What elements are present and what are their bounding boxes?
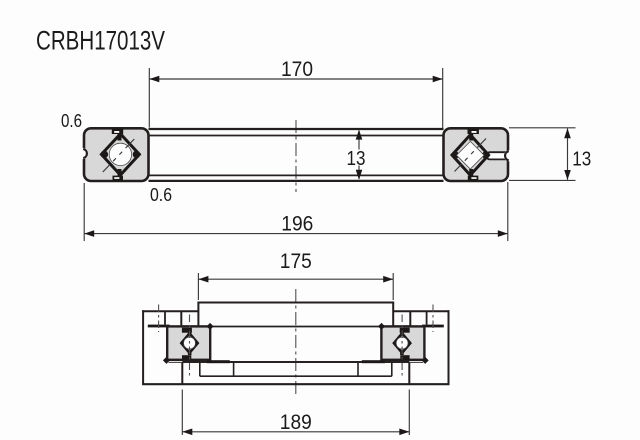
pocket corner dot right-left bbox=[452, 151, 459, 158]
roller circle left bbox=[109, 143, 131, 165]
seal notch right edge bbox=[504, 150, 515, 161]
top plate top edge (half) bbox=[197, 302, 296, 304]
dimension 13 middle bbox=[358, 131, 360, 180]
roller circle small bbox=[184, 337, 196, 349]
svg-text:0.6: 0.6 bbox=[61, 111, 82, 131]
roller axis dash right bbox=[455, 139, 487, 172]
svg-text:175: 175 bbox=[280, 249, 312, 273]
svg-text:0.6: 0.6 bbox=[150, 185, 172, 205]
bottom plate bottom edge (half) bbox=[142, 383, 296, 385]
svg-text:189: 189 bbox=[280, 410, 312, 434]
centerline vertical top view bbox=[295, 120, 297, 192]
main centerline bottom view bbox=[295, 289, 297, 398]
bearing section square bbox=[167, 326, 210, 359]
svg-text:13: 13 bbox=[347, 147, 366, 170]
cage bar bottom small bbox=[182, 355, 191, 360]
top plate left edge bbox=[197, 303, 199, 327]
cage bar top small bbox=[182, 328, 192, 333]
roller axis dash left bbox=[103, 139, 135, 172]
housing outer edge bbox=[142, 310, 144, 384]
bolt centerline housing bbox=[158, 305, 160, 333]
pocket right edge bbox=[233, 362, 235, 376]
dimension 196 bbox=[84, 182, 508, 241]
bore bottom outer line bbox=[149, 180, 444, 182]
cage bar top left ring bbox=[112, 129, 123, 134]
presser plate inner edge bbox=[164, 311, 166, 324]
clamp lip outer top bbox=[148, 325, 170, 328]
bore top outer line bbox=[149, 128, 444, 130]
dimension 13 right side bbox=[509, 128, 576, 181]
bearing centerline small bbox=[189, 315, 191, 378]
svg-text:170: 170 bbox=[281, 57, 313, 81]
clamp lip inner bottom bbox=[207, 360, 230, 363]
svg-text:13: 13 bbox=[572, 147, 591, 170]
top plate bottom edge between bearings bbox=[210, 326, 297, 328]
corner marker bottom-left bbox=[163, 357, 170, 364]
dimension 175 bbox=[198, 273, 393, 300]
gap line housing to plate bbox=[181, 325, 198, 327]
bottom plate top surface (half) bbox=[169, 361, 183, 363]
split slot right ring bbox=[490, 153, 508, 159]
outer ring section left bbox=[84, 128, 149, 181]
roller diamond small bbox=[181, 333, 197, 352]
pocket corner dot left-left bbox=[101, 151, 108, 158]
dimension 189 bbox=[182, 390, 409, 436]
pocket corner dot left-right bbox=[133, 151, 140, 158]
pocket left edge bbox=[199, 362, 201, 376]
bottom inner plate left edge bbox=[181, 362, 183, 384]
housing top edge bbox=[142, 310, 198, 312]
cage bar bottom right ring bbox=[468, 176, 479, 181]
svg-text:196: 196 bbox=[281, 211, 313, 235]
corner marker top-right bbox=[207, 323, 214, 330]
right half of mounting assembly (mirror) bbox=[295, 303, 449, 385]
dimension 170 bbox=[149, 68, 442, 128]
left half of mounting assembly bbox=[142, 303, 296, 385]
housing inner edge bbox=[180, 311, 182, 326]
seal notch left edge bbox=[77, 148, 88, 159]
step line (half) bbox=[200, 375, 297, 377]
bore top inner line bbox=[149, 135, 444, 137]
svg-text:CRBH17013V: CRBH17013V bbox=[36, 26, 165, 56]
pocket dots small bbox=[181, 341, 185, 345]
roller pocket diamond left bbox=[101, 134, 139, 175]
outer ring section right bbox=[444, 128, 509, 181]
roller square right bbox=[457, 141, 485, 169]
pocket corner dot right-right bbox=[482, 151, 489, 158]
cage bar top right ring bbox=[468, 129, 479, 134]
bore bottom inner line bbox=[149, 174, 444, 176]
cage bar bottom left ring bbox=[113, 176, 124, 181]
roller pocket diamond right bbox=[452, 135, 489, 175]
